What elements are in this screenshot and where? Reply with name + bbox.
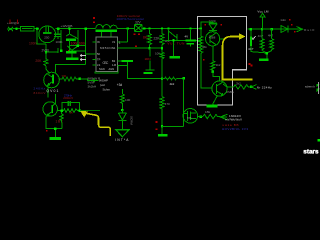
svg-text:45B8: 45B8 xyxy=(209,36,216,40)
diode D2 vee xyxy=(67,46,78,51)
right rail from box xyxy=(248,28,297,30)
probe red dot vee xyxy=(68,50,70,52)
node junction dot B xyxy=(36,28,38,30)
transistor Q5 diagonal xyxy=(66,30,78,39)
watermark green dot xyxy=(317,139,320,142)
resistor R14 in box vertical xyxy=(199,36,203,54)
port P3 arrow left xyxy=(220,114,228,120)
test point arrows white xyxy=(80,54,86,60)
wire IC bottom stub xyxy=(95,65,118,73)
svg-text:OutF: OutF xyxy=(304,28,315,32)
svg-text:1K: 1K xyxy=(69,110,73,114)
svg-text:250: 250 xyxy=(44,36,49,40)
svg-text:1BK: 1BK xyxy=(56,120,64,124)
IC U1 right pin stubs xyxy=(118,42,128,65)
wire rail into box down xyxy=(200,30,202,36)
port P4 arrow left xyxy=(251,85,256,90)
svg-text:HOV2BfUL 3V3: HOV2BfUL 3V3 xyxy=(222,127,248,131)
node junction dot I xyxy=(61,109,63,111)
capacitor C9 vertical bar xyxy=(250,37,252,47)
wire fuse to junction xyxy=(34,28,39,30)
capacitor C5 block wires xyxy=(57,103,79,111)
ground GND3 xyxy=(170,56,181,59)
wire W1 resistors to IC pin xyxy=(118,47,163,49)
svg-text:46k: 46k xyxy=(202,45,207,49)
transistor cluster T left of box xyxy=(169,30,178,41)
svg-text:200mV: 200mV xyxy=(63,96,73,100)
wire rail zener to box xyxy=(143,28,202,30)
wire input to fuse xyxy=(13,28,20,30)
node junction dot M xyxy=(148,27,150,29)
ground GND2 xyxy=(161,126,163,134)
node junction dot K xyxy=(127,27,129,29)
node junction dot D2 xyxy=(60,50,62,52)
svg-text:OSC: OSC xyxy=(103,61,109,65)
node junction dot A xyxy=(15,28,17,30)
wire long horizontal y40 xyxy=(166,39,201,41)
power Vcc arrow xyxy=(260,13,265,29)
svg-text:2k2: 2k2 xyxy=(216,63,221,67)
svg-text:1dm: 1dm xyxy=(280,18,286,22)
resistor R15 2k2 vertical xyxy=(212,46,214,61)
wire Q6 emitter to ground xyxy=(213,96,218,105)
svg-text:Vcc LM: Vcc LM xyxy=(257,9,268,13)
svg-text:SCRM: SCRM xyxy=(130,116,134,125)
svg-text:V1: V1 xyxy=(112,40,116,44)
node junction dot rail C9 xyxy=(250,28,252,30)
node junction dot R1 xyxy=(261,28,263,30)
resistor R11 100 vertical xyxy=(121,89,123,94)
probe red dot a xyxy=(93,17,95,19)
gray box outline xyxy=(198,17,247,106)
wire T1 emitter down to T2 xyxy=(47,85,49,97)
svg-text:3k2kH: 3k2kH xyxy=(88,85,97,89)
yellow arrowhead 1 xyxy=(239,33,246,39)
resistor R12 470 vertical xyxy=(161,79,163,97)
capacitor C7 thick bar at IC pin xyxy=(122,60,134,62)
yellow wire 1 with arrow xyxy=(223,37,253,80)
probe red dot b xyxy=(93,21,95,23)
capacitor C10 plates xyxy=(186,40,197,42)
wire T2 down to Q3 xyxy=(183,78,185,126)
node junction dot X xyxy=(172,39,174,41)
node junction dot F xyxy=(85,27,87,29)
svg-text:+3d: +3d xyxy=(117,83,123,87)
probe red dot d xyxy=(156,121,158,123)
diode D4 xyxy=(118,113,126,121)
text block gray notes xyxy=(88,77,101,89)
port P5 arrow right xyxy=(296,27,303,32)
transistor Q4 in box xyxy=(206,32,220,46)
svg-text:Nr 224Hy: Nr 224Hy xyxy=(257,85,273,89)
svg-text:stars: stars xyxy=(303,149,319,156)
svg-text:mV/WuWuV: mV/WuWuV xyxy=(225,118,242,122)
wire down from C xyxy=(46,30,58,52)
svg-text:2SBfe: 2SBfe xyxy=(226,90,234,94)
svg-text:schem b: schem b xyxy=(305,84,315,88)
node junction dot E xyxy=(68,27,70,29)
white V mark xyxy=(251,36,256,40)
IC U1 left pin stubs xyxy=(93,42,97,65)
wire Q3 to R13 xyxy=(198,116,203,118)
ground GND4 xyxy=(207,105,218,108)
svg-text:N1: N1 xyxy=(112,46,116,50)
probe red dot c xyxy=(135,45,137,47)
svg-text:840mV: 840mV xyxy=(34,91,47,95)
port P1 input arrow xyxy=(7,27,13,31)
wire Q2 emitter to ground xyxy=(46,117,62,138)
node junction dot L xyxy=(143,27,145,29)
svg-text:100: 100 xyxy=(125,98,130,102)
probe red dot e xyxy=(156,128,158,130)
svg-text:470: 470 xyxy=(165,102,170,106)
port arrow INT down xyxy=(116,121,129,137)
node junction dot O xyxy=(167,27,169,29)
node junction dot J xyxy=(79,109,81,111)
svg-text:1Bk: 1Bk xyxy=(205,110,211,114)
ground GND5 xyxy=(259,58,269,61)
wire down from D xyxy=(60,30,62,51)
svg-text:4K7: 4K7 xyxy=(268,34,274,38)
node junction dot G xyxy=(45,51,47,53)
svg-text:INT*A: INT*A xyxy=(115,138,129,142)
transformer T1 core bar xyxy=(96,30,117,32)
svg-text:AGN: AGN xyxy=(109,67,115,71)
diode D3 zener bowtie xyxy=(129,25,144,32)
svg-text:B2: B2 xyxy=(112,59,116,63)
resistor R8 zigzag below xyxy=(60,112,64,122)
wire mesh under rail xyxy=(70,30,86,51)
svg-text:4C7: 4C7 xyxy=(258,34,264,38)
wire to ground GND3 xyxy=(173,40,175,56)
node junction dot R2 xyxy=(271,28,273,30)
wire Q6 collector right xyxy=(223,84,234,87)
svg-text:(vol: (vol xyxy=(100,83,105,87)
ground GND1 xyxy=(50,137,62,140)
svg-text:VU1 TUN: VU1 TUN xyxy=(167,42,184,46)
IC U1 OSC box xyxy=(96,37,118,71)
probe red dots right xyxy=(291,24,293,26)
svg-text:22K: 22K xyxy=(154,36,161,40)
svg-text:32V: 32V xyxy=(135,20,142,24)
svg-text:4V: 4V xyxy=(185,35,189,39)
capacitor C2 thick plate xyxy=(66,38,76,41)
wire IC pin1 up to rail xyxy=(127,29,129,43)
node junction dot H xyxy=(79,77,81,79)
wire junction V to Q3 base xyxy=(162,125,184,127)
svg-text:240Hz: 240Hz xyxy=(34,87,46,91)
node junction dot P xyxy=(189,27,191,29)
node junction dot C xyxy=(57,27,59,29)
wire R15 to Q2b top xyxy=(213,72,220,81)
node junction dot U xyxy=(121,109,123,111)
probe red ticks at input label xyxy=(10,20,11,24)
svg-text:1DN: 1DN xyxy=(145,57,151,61)
node junction dot Z xyxy=(250,86,252,88)
wire Q4 right stub xyxy=(220,38,225,40)
wire horizontal y52 xyxy=(46,48,58,53)
wire circle to rail right xyxy=(56,28,96,30)
svg-text:4CT: 4CT xyxy=(248,47,254,51)
capacitor C11 to ground xyxy=(149,48,151,70)
fuse F1 xyxy=(20,27,34,31)
svg-text:100K: 100K xyxy=(56,40,63,44)
capacitor C5 plates xyxy=(68,101,70,106)
wire R14 down to base xyxy=(201,54,212,89)
probe red dot Q2e xyxy=(46,130,48,132)
node junction dot V xyxy=(161,125,163,127)
svg-text:1-B: 1-B xyxy=(112,63,116,67)
transformer T1 arcs xyxy=(96,24,118,28)
transistor Q3 xyxy=(183,109,198,124)
wire collector Q1 up to bus xyxy=(55,65,85,74)
svg-text:LS: LS xyxy=(97,63,100,67)
capacitor C1 plates xyxy=(54,34,60,36)
capacitor C4 thick plates xyxy=(66,51,77,53)
resistor R19 4k2 horizontal xyxy=(162,77,184,80)
svg-text:IN: IN xyxy=(97,40,100,44)
svg-text:786: 786 xyxy=(187,116,192,120)
svg-text:TP: TP xyxy=(97,58,101,62)
varistor RV1 circle component xyxy=(39,26,56,43)
svg-text:4k2: 4k2 xyxy=(170,82,175,86)
port P2 arrow below IC xyxy=(93,79,99,82)
transistor Q1 xyxy=(44,72,60,88)
wires converge to ground xyxy=(262,51,272,59)
yellow arrowhead 2 xyxy=(80,111,88,118)
svg-text:SGN: SGN xyxy=(99,67,105,71)
wire x190 down xyxy=(190,30,192,41)
node junction dot R xyxy=(148,47,150,49)
node junction dot Q xyxy=(200,27,202,29)
wire base from 20K xyxy=(46,66,50,74)
wire J to right xyxy=(80,110,100,112)
svg-text:+12V@B: +12V@B xyxy=(61,24,73,28)
node junction dot G5 xyxy=(266,52,268,54)
svg-text:Schm: Schm xyxy=(103,87,111,91)
transistor Q6 in box xyxy=(212,81,227,96)
node junction dot W xyxy=(200,115,202,117)
resistor R7 zigzag xyxy=(62,109,80,113)
svg-text:20K: 20K xyxy=(35,59,42,63)
transistor Q2 xyxy=(43,102,57,116)
IC U1 pin labels xyxy=(97,40,116,71)
wire collector Q2 up xyxy=(55,94,57,103)
node junction dot T2 xyxy=(182,77,184,79)
probe red dots in box xyxy=(205,24,207,26)
wire rail F down to IC pin xyxy=(86,30,93,65)
yellow wire 2 staircase xyxy=(84,113,111,136)
svg-text:10K: 10K xyxy=(155,51,160,55)
wire rail transformer to zener xyxy=(117,28,132,30)
node junction dot S xyxy=(161,47,163,49)
svg-text:100n: 100n xyxy=(29,42,37,46)
wire down from junction B xyxy=(37,29,46,44)
node junction dot N xyxy=(161,27,163,29)
svg-text:MF5CN: MF5CN xyxy=(100,46,112,50)
probe red dots under zener xyxy=(134,34,136,36)
node junction dot Y xyxy=(212,71,214,73)
node junction mesh dot xyxy=(77,44,79,46)
transformer stubs to IC xyxy=(102,32,111,37)
node junction dot T xyxy=(161,78,163,80)
wire rail up to diode D6 top xyxy=(201,22,213,29)
svg-text:WSHP: WSHP xyxy=(99,79,108,83)
port P2 text xyxy=(99,79,111,92)
wire W2 corner from IC xyxy=(128,62,163,79)
svg-text:100n: 100n xyxy=(79,42,87,46)
node junction dot Q2e xyxy=(54,127,56,129)
